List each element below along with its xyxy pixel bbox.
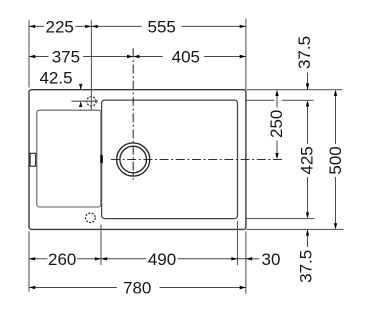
drain inner circle [120,146,147,173]
tap hole T1 vertical crosshair / extension line [90,20,92,110]
dim row2 405 line [133,56,246,58]
dim row3 260 arrows [29,257,101,260]
svg-text:37.5: 37.5 [295,36,314,69]
sink outer rim [29,90,246,230]
overflow slot tick [100,155,103,163]
svg-text:405: 405 [172,48,200,67]
svg-text:42.5: 42.5 [39,68,72,87]
extension line left edge bottom [28,231,30,291]
dim row4 780 arrows [29,286,246,289]
extension line left edge top [28,20,30,88]
right extension line bowl top [247,99,314,101]
svg-text:260: 260 [48,250,76,269]
svg-text:490: 490 [148,250,176,269]
overflow tab [30,153,35,166]
svg-text:500: 500 [326,146,345,174]
dim row1 555 arrows [91,25,246,28]
dim row3 490 line [101,258,246,260]
svg-text:37.5: 37.5 [297,250,316,283]
dim 37.5 top arrow [306,73,309,90]
dim row2 375 arrows [29,55,133,58]
extension line bowl left bottom [100,224,102,265]
optional tap hole T2 dashed circle [86,213,96,223]
dim 425 arrows [306,100,309,218]
svg-text:250: 250 [267,110,286,138]
dim 250 arrows [275,90,278,160]
extension line right edge bottom [245,231,247,293]
right extension line bottom edge [247,228,344,230]
dim 500 line [335,96,337,224]
svg-text:555: 555 [148,18,176,37]
svg-text:30: 30 [262,250,281,269]
dim 500 arrows [334,90,337,230]
extension line right edge top [245,19,247,90]
dim row2 375 line [29,56,133,58]
dim 37.5 bottom arrow [306,229,309,247]
right extension line bowl bottom [247,218,315,220]
dim 42.5 arrows [79,84,82,107]
dim row2 405 arrows [133,55,246,58]
right extension line top edge [247,89,343,91]
dim row1 555 line [91,25,246,27]
dim row3 30 arrow and tail [246,257,259,260]
dim row3 260 line [29,258,101,260]
dim 250 line [276,96,278,154]
svg-text:225: 225 [46,18,74,37]
dim row1 225 line [29,25,91,27]
svg-text:780: 780 [123,279,151,298]
bowl [102,100,238,219]
drain outer circle [117,143,150,176]
dim row4 780 line [29,287,246,289]
drain vertical centerline [132,48,134,179]
svg-text:425: 425 [298,146,317,174]
svg-text:375: 375 [52,48,80,67]
dim 425 line [307,106,309,213]
dim row3 490 arrows [101,257,238,260]
drain horizontal centerline [111,159,285,161]
tap hole T1 horizontal crosshair [72,100,98,102]
extension line bowl right bottom [237,221,239,265]
tap hole T1 dashed circle [87,97,96,106]
drainboard [37,110,101,207]
dim row1 225 arrows [29,25,91,28]
